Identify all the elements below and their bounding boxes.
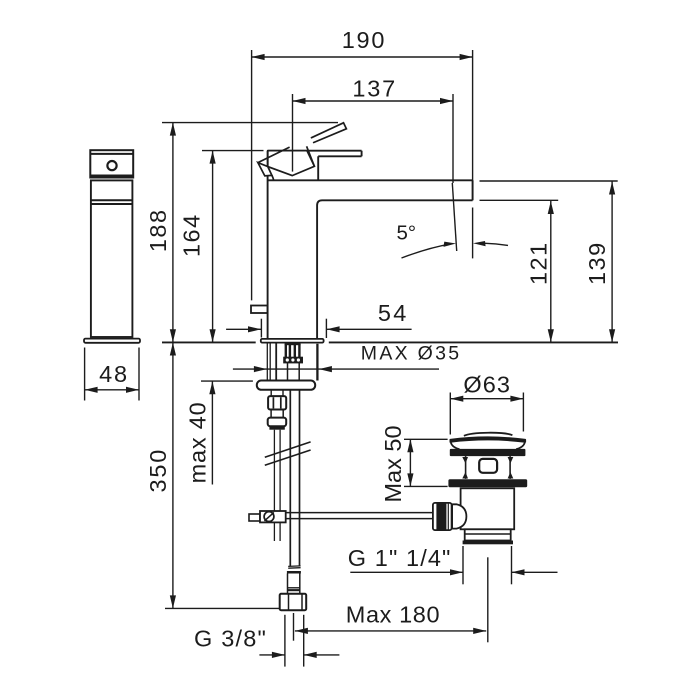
svg-text:190: 190 [342,27,387,53]
svg-text:G 1" 1/4": G 1" 1/4" [348,545,452,571]
svg-text:MAX Ø35: MAX Ø35 [361,343,462,365]
svg-text:164: 164 [179,213,205,257]
svg-text:max 40: max 40 [184,401,210,483]
svg-text:Max 50: Max 50 [380,425,406,502]
svg-text:48: 48 [99,361,129,387]
svg-text:137: 137 [352,75,397,101]
svg-text:Ø63: Ø63 [463,371,511,397]
svg-text:G 3/8": G 3/8" [194,626,267,652]
svg-text:188: 188 [145,208,171,252]
svg-text:5°: 5° [397,222,417,245]
svg-text:350: 350 [145,448,171,493]
svg-text:139: 139 [584,241,610,285]
svg-text:Max 180: Max 180 [346,601,440,627]
svg-text:121: 121 [525,241,551,285]
svg-text:54: 54 [378,300,409,326]
